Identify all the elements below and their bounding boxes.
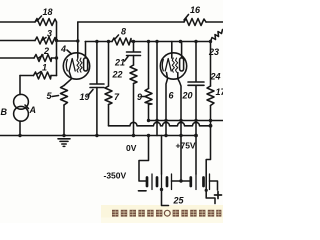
wire bottom-right L bbox=[206, 190, 215, 204]
wire line B with hops bbox=[109, 122, 211, 125]
node dot battery1 bottom bbox=[160, 188, 163, 191]
node dot bus R5 bbox=[62, 134, 65, 137]
resistor R2 bbox=[34, 55, 52, 62]
svg-text:22: 22 bbox=[112, 70, 123, 80]
svg-text:4: 4 bbox=[60, 44, 66, 54]
node dot lineA R9 bbox=[147, 119, 150, 122]
wire plate lead U6 bbox=[181, 42, 183, 58]
wire node column bbox=[56, 22, 58, 76]
wire battery1 feed step bbox=[139, 136, 149, 182]
wire U6 plate drop bbox=[178, 73, 181, 182]
label leader 4 bbox=[67, 50, 72, 54]
node dot grid junction bbox=[76, 39, 79, 42]
node dot plate-R7 bbox=[107, 40, 110, 43]
wire U6 cathode bbox=[166, 73, 168, 136]
svg-text:8: 8 bbox=[121, 27, 126, 37]
node dot plate-C20 bbox=[194, 40, 197, 43]
tube U6 filament bbox=[165, 59, 171, 72]
wire line A bbox=[149, 120, 224, 122]
wire to source bbox=[20, 75, 34, 77]
svg-text:23: 23 bbox=[208, 47, 219, 57]
watermark text bbox=[112, 210, 221, 217]
node dot battery tap bbox=[179, 179, 182, 182]
node dot lineB end bbox=[209, 124, 213, 128]
wire V2 bbox=[156, 42, 158, 136]
svg-text:21: 21 bbox=[114, 58, 125, 68]
wire R9 branch bbox=[148, 42, 150, 89]
resistor R8 bbox=[112, 38, 131, 45]
node dot bus end bbox=[194, 134, 198, 138]
label leader 16 bbox=[184, 15, 189, 21]
capacitor C20 bottom lead bbox=[195, 85, 197, 174]
node dot bus tap bbox=[179, 134, 182, 137]
resistor R7 bbox=[105, 86, 112, 105]
svg-text:3: 3 bbox=[47, 29, 52, 39]
label leader 2 bbox=[39, 55, 44, 58]
node dot bus cathode6 bbox=[164, 134, 167, 137]
wire plate bus bbox=[85, 41, 112, 43]
node dot ladder R2 bbox=[55, 56, 58, 59]
wire R5 to bus bbox=[63, 105, 65, 136]
wire grid lead U6 bbox=[171, 42, 173, 59]
wire plate lead U4 bbox=[85, 42, 87, 58]
battery minus sign bbox=[139, 190, 147, 192]
node dot plate-R9 bbox=[147, 40, 150, 43]
watermark banner bbox=[101, 205, 223, 221]
resistor R17 bbox=[207, 86, 214, 106]
wire R7 branch bbox=[108, 42, 110, 87]
node dot lineA V2 bbox=[155, 119, 158, 122]
capacitor C19 bottom lead bbox=[96, 88, 98, 136]
label leader 5 bbox=[52, 96, 59, 97]
resistor R22 bbox=[130, 65, 137, 84]
tube U4 plate bbox=[84, 58, 88, 71]
wire grid lead U4 bbox=[77, 22, 79, 58]
capacitor C19 top lead bbox=[96, 42, 98, 84]
tube U6 grid 2 bbox=[176, 58, 178, 72]
wire R22 to bus bbox=[133, 84, 135, 136]
node dot lineA V4 bbox=[179, 119, 182, 122]
tube U6 plate bbox=[180, 58, 184, 71]
battery B1 feed stub bbox=[162, 190, 169, 206]
svg-text:16: 16 bbox=[190, 5, 201, 15]
label leader 18 bbox=[37, 16, 42, 21]
resistor R3 bbox=[35, 37, 57, 44]
ground bbox=[58, 138, 70, 140]
node dot plate-C21 bbox=[132, 40, 135, 43]
tube U4 grid 1 bbox=[77, 58, 79, 72]
svg-text:-350V: -350V bbox=[104, 171, 127, 181]
node dot bus C19 bbox=[95, 134, 98, 137]
label leader 21 bbox=[125, 57, 129, 62]
wire source to bus bbox=[19, 121, 21, 136]
label leader 1 bbox=[37, 72, 42, 75]
tube U6 cathode arc bbox=[162, 60, 163, 71]
wire R16 to edge bbox=[206, 21, 223, 23]
wire battery middle tap bbox=[172, 180, 191, 182]
svg-text:25: 25 bbox=[173, 196, 185, 206]
node dot lineA cathode6 bbox=[164, 119, 167, 122]
node dot bus source bbox=[18, 134, 21, 137]
wire V6 bottom bbox=[210, 106, 212, 126]
tube U4 grid 2 bbox=[80, 58, 82, 72]
source feed wire bbox=[19, 76, 21, 95]
tube U4 envelope bbox=[63, 53, 89, 79]
svg-text:0V: 0V bbox=[126, 143, 137, 153]
node dot lineA C20 bbox=[194, 119, 197, 122]
node dot plate-end bbox=[209, 40, 212, 43]
resistor R5 bbox=[61, 86, 68, 106]
battery B1 short plate 1 bbox=[146, 178, 149, 187]
svg-text:1: 1 bbox=[42, 63, 47, 73]
source A bbox=[14, 106, 29, 121]
wire U4 cathode bbox=[64, 71, 72, 86]
svg-text:17: 17 bbox=[216, 87, 224, 97]
tube U4 filament bbox=[69, 59, 75, 72]
label plus terminal bbox=[215, 192, 222, 199]
label leader 9 bbox=[142, 96, 146, 98]
svg-text:20: 20 bbox=[182, 91, 193, 101]
wire R1 to node bbox=[51, 75, 57, 77]
capacitor C21 bbox=[127, 51, 141, 53]
tube U4 cathode arc bbox=[66, 60, 67, 71]
svg-text:B: B bbox=[1, 107, 8, 117]
battery B2 long plate 2 bbox=[209, 174, 211, 190]
node dot bus V1 bbox=[147, 134, 150, 137]
battery B2 short plate 1 bbox=[189, 178, 192, 187]
svg-text:A: A bbox=[29, 105, 37, 115]
node dot bus R22 bbox=[132, 134, 135, 137]
wire R9 to line A bbox=[148, 105, 150, 121]
wire R7 to hop line bbox=[108, 105, 110, 126]
capacitor C20 top lead bbox=[195, 42, 197, 82]
wire V6 to battery2 step bbox=[206, 126, 210, 190]
wire ground bus bbox=[0, 135, 196, 137]
source B bbox=[14, 94, 29, 109]
resistor R9 bbox=[145, 89, 152, 105]
label leader 3 bbox=[42, 38, 47, 41]
battery B1 long plate 3 bbox=[171, 174, 173, 190]
battery B2 long plate 1 bbox=[195, 174, 197, 190]
label leader 19 bbox=[88, 90, 93, 96]
resistor R16 bbox=[184, 19, 206, 26]
resistor R1 bbox=[34, 72, 52, 79]
battery B1 short plate 2 bbox=[156, 178, 159, 187]
label leader A bbox=[25, 105, 29, 109]
resistor R18 bbox=[35, 19, 57, 26]
node dot lineA V6 bbox=[209, 119, 212, 122]
wire R2 to node bbox=[52, 57, 57, 59]
node dot plate-C19 bbox=[95, 40, 98, 43]
node dot plate-plate6 bbox=[179, 40, 182, 43]
label leader 8 bbox=[115, 35, 119, 40]
wire bus2 to battery B1 tap bbox=[161, 136, 163, 175]
wire V6 top bbox=[210, 42, 212, 87]
wire grid feed bbox=[57, 40, 78, 42]
wire battery plus terminal bbox=[210, 181, 218, 190]
wire top bus to R16 bbox=[78, 21, 184, 23]
node dot plate-V2 bbox=[155, 40, 158, 43]
battery B2 short plate 2 bbox=[202, 178, 205, 187]
svg-text:2: 2 bbox=[43, 46, 49, 56]
battery B1 long plate 2 bbox=[161, 174, 163, 190]
svg-text:18: 18 bbox=[43, 7, 53, 17]
node dot ladder R3 bbox=[55, 39, 58, 42]
node dot bottom L bbox=[205, 189, 208, 192]
tube U6 grid 1 bbox=[172, 58, 174, 72]
resistor R23 diagonal bbox=[211, 30, 223, 42]
wire input 3 bbox=[0, 57, 34, 59]
wire input 2 bbox=[0, 40, 35, 42]
capacitor C20 bbox=[188, 81, 204, 83]
capacitor C21 top lead bbox=[133, 42, 135, 52]
capacitor C19 bbox=[90, 83, 104, 85]
svg-text:24: 24 bbox=[210, 72, 221, 82]
svg-text:19: 19 bbox=[80, 92, 90, 102]
svg-text:+75V: +75V bbox=[176, 141, 196, 151]
tube U6 envelope bbox=[160, 53, 186, 79]
svg-text:9: 9 bbox=[137, 92, 142, 102]
battery B1 short plate 3 bbox=[166, 178, 169, 187]
wire plate bus right bbox=[131, 41, 211, 43]
wire C21 to R22 bbox=[133, 56, 135, 66]
battery B1 long plate 1 bbox=[151, 174, 153, 190]
wire input 1 bbox=[0, 21, 35, 23]
